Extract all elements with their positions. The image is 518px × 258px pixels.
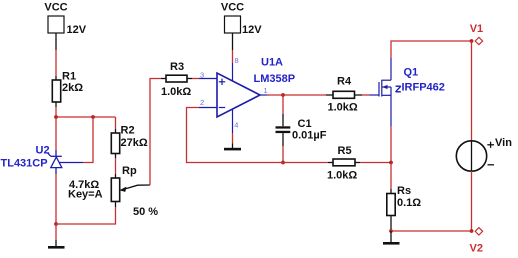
resistor R4 1.0kOhm <box>326 76 362 114</box>
svg-text:VCC: VCC <box>221 2 244 14</box>
sense node junction <box>389 161 393 165</box>
shunt reference U2 TL431CP <box>1 144 84 174</box>
svg-text:3: 3 <box>200 70 204 79</box>
svg-text:1.0kΩ: 1.0kΩ <box>161 86 191 98</box>
wire node A horizontal <box>56 116 116 118</box>
wire VCC2 to pin8 <box>232 50 234 63</box>
svg-text:Rs: Rs <box>397 185 411 197</box>
resistor Rs 0.1Ohm <box>387 185 421 231</box>
wire R4 to gate <box>362 94 370 96</box>
resistor R1 2kOhm <box>52 71 83 108</box>
svg-text:12V: 12V <box>67 24 87 36</box>
svg-text:U2: U2 <box>36 144 50 156</box>
wire R1 to node A <box>55 107 57 117</box>
wire node A down to U2 cathode <box>55 117 57 150</box>
ground node junction <box>54 222 58 226</box>
svg-text:0.01µF: 0.01µF <box>292 130 327 142</box>
transistor Q1 IRFP462 <box>370 58 445 126</box>
svg-text:1.0kΩ: 1.0kΩ <box>327 170 357 182</box>
power VCC2 <box>221 2 262 51</box>
wire C1 bottom to feedback net <box>282 146 284 163</box>
potentiometer Rp 4.7kOhm <box>68 165 158 218</box>
svg-text:VCC: VCC <box>44 2 67 14</box>
resistor R2 27kOhm <box>111 124 148 158</box>
wire R5 to source node <box>360 162 391 164</box>
svg-text:TL431CP: TL431CP <box>1 157 48 169</box>
svg-text:IRFP462: IRFP462 <box>402 81 445 93</box>
ground left <box>48 224 65 249</box>
wire source to sense node <box>390 126 392 163</box>
svg-text:V2: V2 <box>470 243 483 255</box>
resistor R5 1.0kOhm <box>327 145 360 182</box>
junction C1 bottom <box>281 161 285 165</box>
wire feedback pin2 to R5 <box>187 108 329 163</box>
wire R2 to Rp <box>115 158 117 174</box>
ground op-amp <box>224 144 241 151</box>
node V1 <box>470 23 484 45</box>
svg-text:2kΩ: 2kΩ <box>62 82 83 94</box>
svg-text:4: 4 <box>234 121 238 130</box>
wire Rs bottom to V2 <box>391 230 472 232</box>
resistor R3 1.0kOhm <box>161 61 192 98</box>
svg-text:U1A: U1A <box>261 57 283 69</box>
svg-text:50 %: 50 % <box>133 206 158 218</box>
svg-text:Q1: Q1 <box>404 66 419 78</box>
wire node A to R2 top <box>115 117 117 129</box>
source Vin <box>456 137 512 171</box>
wire pin4 to ground <box>232 133 234 144</box>
svg-text:0.1Ω: 0.1Ω <box>397 197 421 209</box>
wire Rp wiper to R3 <box>150 79 161 186</box>
wire ground node to Rp bottom <box>56 207 116 224</box>
wire V1 to Vin <box>471 41 473 141</box>
svg-text:27kΩ: 27kΩ <box>121 137 148 149</box>
svg-text:Rp: Rp <box>122 165 137 177</box>
wire drain to V1 <box>391 41 472 58</box>
wire sense node to Rs <box>390 163 392 190</box>
svg-text:R1: R1 <box>62 71 76 83</box>
wire U2 anode to ground node <box>55 174 57 224</box>
capacitor C1 0.01uF <box>276 114 327 146</box>
wire op-amp output <box>267 94 326 96</box>
svg-text:R3: R3 <box>170 61 184 73</box>
svg-text:12V: 12V <box>242 24 262 36</box>
wire node B to TL431 ref <box>83 117 93 163</box>
svg-text:Key=A: Key=A <box>68 189 103 201</box>
svg-text:C1: C1 <box>298 118 312 130</box>
op-amp U1A LM358P <box>199 56 295 133</box>
node V2 <box>470 228 483 255</box>
svg-text:1: 1 <box>264 86 268 95</box>
svg-text:LM358P: LM358P <box>254 73 296 85</box>
svg-text:R5: R5 <box>338 145 352 157</box>
wire Vin to V2 <box>471 171 473 231</box>
svg-text:R4: R4 <box>337 76 352 88</box>
svg-text:2: 2 <box>200 98 204 107</box>
wire output node to C1 <box>282 95 284 114</box>
svg-text:Vin: Vin <box>495 137 512 149</box>
node A junction <box>54 115 58 119</box>
wire R3 to op-amp pin3 <box>192 78 199 80</box>
node B junction <box>91 115 95 119</box>
power VCC1 <box>44 2 86 51</box>
svg-text:8: 8 <box>235 56 239 65</box>
svg-text:R2: R2 <box>121 124 135 136</box>
node Rs bottom junction <box>389 229 393 233</box>
ground Rs <box>383 231 400 245</box>
svg-text:1.0kΩ: 1.0kΩ <box>328 102 358 114</box>
svg-text:V1: V1 <box>470 23 483 35</box>
wire VCC1 to R1 <box>55 50 57 80</box>
output node junction <box>281 93 285 97</box>
